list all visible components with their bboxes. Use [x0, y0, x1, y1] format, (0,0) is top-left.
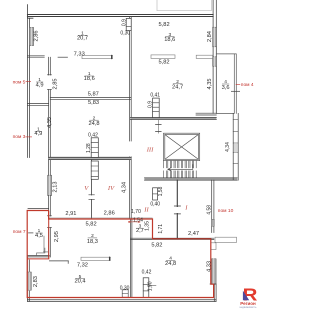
- door ticks stair lobby: [156, 124, 162, 131]
- room label 2 / 18,3: [87, 233, 98, 245]
- sill bar vertical right: [211, 243, 216, 250]
- svg-text:пом 3: пом 3: [13, 134, 26, 140]
- svg-text:0,41: 0,41: [150, 93, 160, 99]
- sill bar top mid 5,82: [151, 55, 175, 59]
- svg-text:4,33: 4,33: [207, 261, 213, 272]
- room label a / 4,9 lower: [34, 127, 42, 137]
- faint upper-section outline: [157, 0, 211, 11]
- svg-text:4,34: 4,34: [225, 142, 231, 152]
- wall right bottom (double): [214, 284, 216, 301]
- step bottom right: [210, 283, 216, 285]
- svg-text:1,28: 1,28: [86, 143, 92, 153]
- svg-text:18,6: 18,6: [164, 37, 175, 43]
- svg-text:4,35: 4,35: [207, 78, 213, 89]
- svg-text:1,70: 1,70: [131, 209, 141, 215]
- svg-text:0,40: 0,40: [150, 202, 160, 208]
- staircase arrow: [168, 165, 193, 171]
- svg-text:7,32: 7,32: [77, 263, 88, 269]
- svg-text:5,82: 5,82: [159, 22, 170, 28]
- svg-text:пом 5: пом 5: [13, 79, 26, 85]
- room label 1 / 18,6 left: [84, 71, 95, 82]
- svg-text:1,58: 1,58: [158, 186, 164, 196]
- svg-text:5,82: 5,82: [151, 243, 162, 249]
- svg-text:4,35: 4,35: [47, 117, 53, 128]
- room label 1 / 20,7: [77, 31, 88, 42]
- svg-text:2,7: 2,7: [136, 228, 144, 234]
- svg-text:5,83: 5,83: [88, 100, 99, 106]
- svg-text:1,71: 1,71: [158, 224, 164, 234]
- svg-text:пом 10: пом 10: [218, 208, 234, 214]
- wall stair bottom y178 (double): [145, 178, 238, 180]
- svg-text:пом 4: пом 4: [241, 82, 254, 88]
- red leader pom4: [236, 83, 241, 85]
- sill bar 7,32 end cap: [109, 257, 111, 260]
- room label a / 4,9 upper: [36, 77, 44, 88]
- svg-text:2: 2: [91, 233, 94, 239]
- window hatch on x212 wall: [212, 219, 215, 226]
- svg-text:пом 7: пом 7: [13, 229, 26, 235]
- wall room V/IV divider x91 (door gap): [91, 160, 93, 219]
- pom7 corner step: [37, 248, 45, 256]
- wall left bottom exterior (double): [27, 257, 29, 302]
- window right-top small: [213, 57, 217, 66]
- svg-text:1,35: 1,35: [144, 221, 150, 231]
- elevator shaft: [164, 133, 200, 160]
- door ticks x91: [89, 195, 95, 200]
- red leader pom5: [26, 81, 31, 83]
- svg-text:5,87: 5,87: [88, 92, 99, 98]
- door to stair lobby: [157, 119, 159, 133]
- svg-text:18,3: 18,3: [87, 239, 98, 245]
- svg-text:2,84: 2,84: [207, 31, 213, 42]
- svg-text:4,58: 4,58: [206, 205, 212, 215]
- svg-text:2,47: 2,47: [188, 231, 199, 237]
- svg-text:0,9: 0,9: [148, 101, 154, 108]
- sill bar end cap: [111, 55, 113, 58]
- svg-text:III: III: [146, 146, 154, 153]
- wall left exterior (double): [27, 15, 29, 158]
- svg-text:IV: IV: [107, 185, 115, 192]
- duct bottom 0,30: [122, 290, 128, 297]
- room label 5 / 20,4: [74, 274, 85, 285]
- wall interior x48 upper (double, door gap): [49, 57, 51, 157]
- svg-text:0,9: 0,9: [121, 19, 127, 26]
- duct 0,41 column: [153, 98, 160, 117]
- staircase mid landing line: [164, 168, 196, 170]
- svg-text:2,86: 2,86: [33, 30, 39, 41]
- red leader pom3: [25, 136, 32, 138]
- svg-text:2,83: 2,83: [33, 276, 39, 287]
- svg-text:4,34: 4,34: [122, 182, 128, 193]
- window left-top 2,86: [29, 27, 33, 45]
- svg-text:4,5: 4,5: [35, 233, 43, 239]
- wall x130 lower (double): [130, 219, 132, 297]
- room label 2 / 24,8 left: [88, 115, 99, 127]
- wall bottom exterior (double): [27, 300, 216, 302]
- red apartment boundary: [27, 211, 213, 298]
- wall divider y98 rooms 18,6/24,8: [50, 98, 131, 100]
- wall top notch left: [27, 5, 33, 19]
- svg-text:0,42: 0,42: [142, 269, 152, 275]
- wall divider small rooms y104: [27, 104, 48, 106]
- sill bar 7,33: [82, 55, 113, 58]
- svg-text:2,91: 2,91: [65, 211, 76, 217]
- red dimension arrow 1,54: [128, 221, 140, 223]
- door jamb ticks x48 lower: [47, 216, 51, 228]
- svg-text:3,6: 3,6: [222, 85, 230, 91]
- door ticks x177: [174, 206, 180, 214]
- sill bar pom10: [215, 237, 237, 242]
- wall stair right x233 (double): [233, 113, 238, 180]
- wall corridor y113 right: [196, 113, 216, 115]
- logo blue triangle: [243, 291, 249, 301]
- wall hall bottom y238 (double): [131, 238, 214, 239]
- wall corridor y117 (double): [130, 117, 216, 119]
- window bottom left 2,83: [27, 272, 31, 290]
- svg-text:2,85: 2,85: [53, 78, 59, 89]
- room label 3 / 2,7: [136, 224, 144, 234]
- pom7 leader tick black: [29, 232, 34, 234]
- room label 4 / 24,8 bottom: [165, 256, 176, 268]
- svg-text:24,7: 24,7: [172, 85, 183, 91]
- svg-text:2,86: 2,86: [104, 211, 115, 217]
- wall x177 hall (door gap): [176, 180, 178, 238]
- svg-text:1,90: 1,90: [147, 281, 153, 291]
- sill bar right top: [196, 55, 212, 58]
- wall mid vertical x130 (door gap): [130, 17, 132, 219]
- svg-text:7,33: 7,33: [74, 52, 85, 58]
- step lines below pom7: [49, 261, 68, 264]
- svg-text:20,7: 20,7: [77, 36, 88, 42]
- wall room1 bottom left part: [27, 56, 44, 57]
- duct top 0,30: [126, 18, 131, 30]
- duct bottom 0,42: [143, 278, 156, 298]
- svg-text:18,6: 18,6: [84, 76, 95, 82]
- room label 3 / 18,6 right: [164, 32, 175, 43]
- svg-text:4,9: 4,9: [34, 131, 42, 137]
- room label a / 4,5 pom7: [35, 228, 43, 239]
- svg-text:недвижимость: недвижимость: [240, 306, 257, 309]
- room label 4 / 3,6: [222, 79, 240, 91]
- svg-text:1,54: 1,54: [133, 218, 143, 224]
- wall above red boundary: [49, 217, 153, 219]
- loggia pom4 outline: [216, 54, 236, 114]
- window bottom right 4,33: [212, 259, 217, 284]
- window right-top 2,84: [213, 27, 217, 47]
- svg-text:II: II: [143, 206, 149, 213]
- duct hall 0,40: [153, 188, 158, 200]
- svg-text:2,13: 2,13: [52, 181, 58, 192]
- svg-text:5,82: 5,82: [158, 59, 169, 65]
- wall top exterior (double): [27, 15, 213, 17]
- wall x212 below stairs: [212, 180, 214, 232]
- svg-text:24,8: 24,8: [88, 121, 99, 127]
- pom7 inner partition: [43, 236, 47, 252]
- svg-text:5,82: 5,82: [86, 222, 97, 228]
- window stair right: [234, 143, 238, 152]
- wall divider y157 (double): [49, 158, 132, 160]
- wall pom7 top black: [28, 208, 49, 210]
- door jamb ticks x48 upper: [47, 75, 51, 90]
- svg-text:24,8: 24,8: [165, 261, 176, 267]
- wall pom7 bottom black (double): [28, 256, 50, 257]
- duct mid column: [91, 138, 98, 180]
- svg-text:0,30: 0,30: [120, 30, 130, 36]
- wall right exterior (double): [213, 0, 216, 113]
- window left-mid on x48 wall: [48, 175, 52, 195]
- svg-text:0,30: 0,30: [120, 285, 130, 291]
- room label 2 / 24,7: [172, 79, 183, 91]
- wall room1 bottom right part: [58, 56, 68, 58]
- wall interior x48 lower (double): [49, 158, 51, 258]
- svg-text:20,4: 20,4: [74, 279, 85, 285]
- sill bar 7,32 bottom: [81, 257, 111, 260]
- svg-text:4,9: 4,9: [36, 83, 44, 89]
- svg-text:2,95: 2,95: [54, 231, 60, 242]
- svg-text:0,42: 0,42: [88, 133, 98, 139]
- staircase treads: [164, 161, 197, 178]
